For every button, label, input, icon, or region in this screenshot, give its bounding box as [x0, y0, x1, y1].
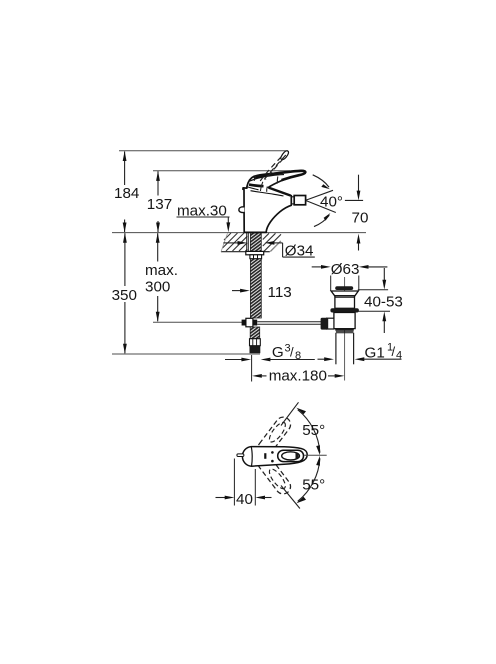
- shadow continuation to aerator: [269, 188, 291, 196]
- svg-text:40-53: 40-53: [364, 294, 403, 311]
- svg-text:8: 8: [295, 350, 301, 362]
- plan: dashed lever upper (rotated -52.5): [255, 414, 294, 458]
- rosette flange (dark): [330, 308, 359, 312]
- extension line top (184 ref, raised lever height): [119, 150, 288, 152]
- svg-text:40°: 40°: [320, 193, 343, 210]
- dimension Ø34 arrows: [223, 242, 238, 244]
- tailpipe: [335, 333, 337, 365]
- plan: angular arc lower with arrows: [298, 458, 320, 501]
- label G3/8 with arrows: [225, 359, 243, 361]
- shank lower threaded part: [250, 327, 260, 339]
- plan: centre line right: [304, 454, 327, 456]
- svg-text:G1: G1: [365, 344, 385, 361]
- deck right cut edge: [270, 241, 281, 252]
- plan: left cap seam: [251, 447, 252, 467]
- lever top thick edge through tip: [254, 171, 306, 180]
- dimension max.180: [251, 355, 253, 382]
- rotation arc arrow lower: [314, 215, 329, 226]
- plan: 55deg ray upper: [281, 402, 299, 425]
- dimension 184: [124, 152, 126, 233]
- svg-text:max.180: max.180: [269, 367, 327, 384]
- lever underside shadow: [249, 185, 264, 187]
- deck bottom line: [221, 251, 246, 253]
- cartridge dome line: [247, 187, 258, 190]
- bottom collar: [335, 328, 354, 330]
- raised lever dashed edges: [260, 155, 286, 181]
- plan: ring inner oval: [282, 452, 300, 460]
- raised lever tip (solid small): [281, 151, 289, 160]
- faucet body silhouette: [243, 171, 306, 233]
- pop-up waste: plug cap: [335, 286, 353, 290]
- spout top crease: [251, 191, 284, 196]
- dimension 350: [124, 233, 126, 353]
- svg-text:113: 113: [268, 284, 292, 301]
- plan: ring outer: [278, 450, 304, 461]
- phantom dashes across solid lever: [254, 175, 277, 191]
- aerator face: [290, 196, 292, 206]
- plan: small marks: [264, 453, 266, 459]
- top cone: [331, 291, 358, 296]
- dimension 113 leader: [232, 290, 241, 292]
- dimension 137: [157, 171, 159, 232]
- plan: inner oval right bar: [296, 452, 299, 459]
- body: [334, 313, 355, 329]
- plan: 55deg ray lower: [281, 486, 300, 509]
- shank studs: [247, 233, 249, 251]
- horseshoe washer: [250, 255, 262, 259]
- spray fan lines: [306, 190, 333, 200]
- deck top line: [112, 232, 366, 234]
- svg-text:/: /: [392, 344, 396, 359]
- pop-up rod to waste: [257, 321, 321, 323]
- svg-text:55°: 55°: [302, 422, 325, 439]
- pop-up rod tee joint: [246, 318, 253, 327]
- retaining clip on left: [239, 207, 245, 213]
- wing inner crease: [250, 175, 284, 181]
- rod extension line (max.300 ref): [153, 321, 246, 323]
- plan: pin at left: [237, 454, 244, 457]
- rotation arc arrow upper: [313, 175, 329, 187]
- svg-text:/: /: [290, 345, 294, 360]
- dimension Ø63: [312, 266, 322, 268]
- svg-text:55°: 55°: [302, 477, 325, 494]
- svg-text:max.: max.: [145, 262, 178, 279]
- deck left cut edge: [221, 233, 228, 252]
- svg-text:G: G: [272, 344, 284, 361]
- svg-text:137: 137: [147, 196, 172, 213]
- svg-text:4: 4: [396, 350, 402, 362]
- bottom reference line (350): [112, 353, 260, 355]
- svg-text:350: 350: [112, 287, 137, 304]
- svg-text:40: 40: [236, 491, 253, 508]
- extension line 137 ref (lever rest height): [153, 170, 290, 172]
- aerator square: [294, 196, 305, 205]
- upper cylinder: [335, 296, 355, 309]
- rod knob (black): [321, 318, 329, 330]
- plan: faucet body outline: [242, 447, 307, 467]
- mounting nut: [246, 251, 264, 254]
- dimension 40-53: [358, 289, 388, 291]
- plan: angular arc upper with arrows: [298, 410, 320, 453]
- svg-text:184: 184: [114, 185, 139, 202]
- deck hatching left: [223, 233, 248, 251]
- label G1 1/4 with arrows: [318, 358, 326, 360]
- svg-text:300: 300: [145, 278, 170, 295]
- G3/8 fitting: [250, 339, 261, 346]
- deck hatching right: [263, 233, 281, 251]
- dimension max.300: [157, 233, 159, 321]
- dimension 70: [345, 199, 363, 201]
- svg-text:70: 70: [352, 210, 369, 227]
- plan: dashed lever lower (rotated +52.5): [255, 452, 294, 496]
- side port: [327, 318, 334, 329]
- threaded shank tube: [250, 233, 261, 318]
- svg-text:Ø63: Ø63: [331, 261, 360, 278]
- dimension 40: [233, 459, 235, 506]
- waste centre line: [344, 277, 346, 381]
